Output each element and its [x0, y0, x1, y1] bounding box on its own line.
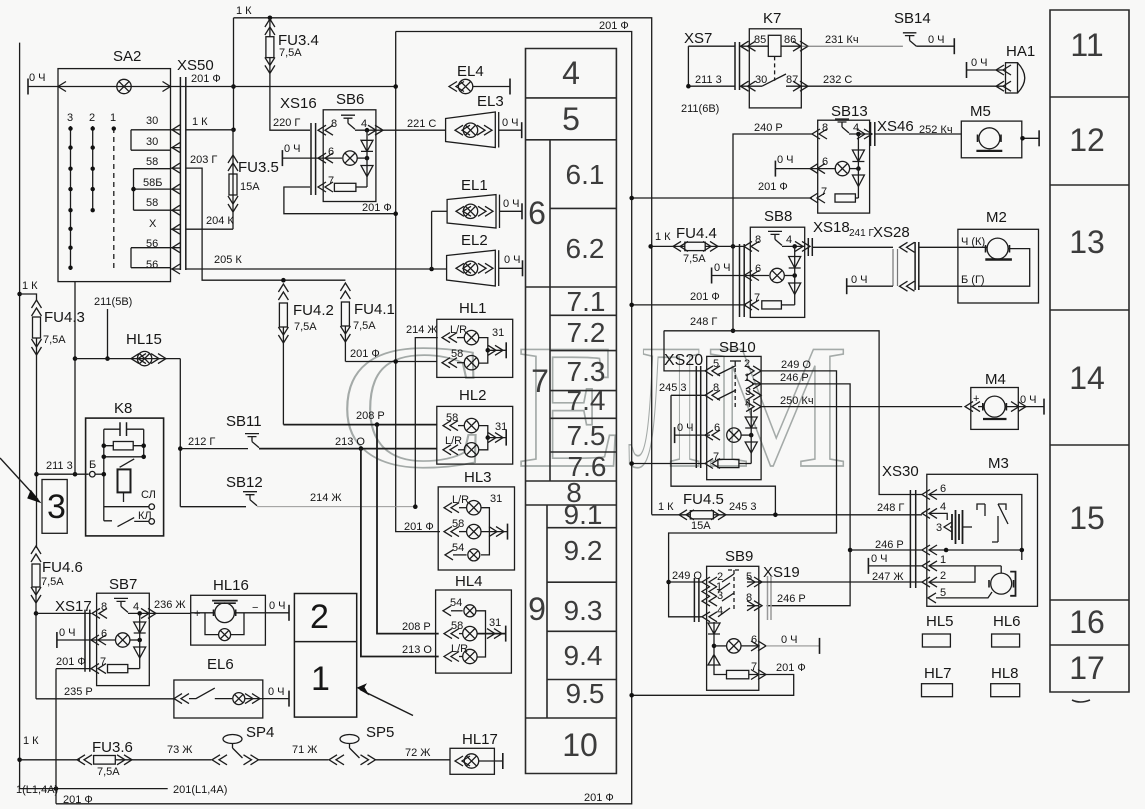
node 1К to XS50 [231, 18, 236, 132]
button SB11 [180, 413, 437, 451]
wire 208Р FU4.2 to HL2 [283, 410, 437, 427]
svg-text:240 Р: 240 Р [754, 122, 783, 134]
svg-text:6.2: 6.2 [566, 233, 605, 264]
svg-text:0 Ч: 0 Ч [851, 274, 868, 286]
svg-text:7: 7 [821, 186, 827, 198]
svg-text:211 3: 211 3 [695, 74, 722, 86]
connector XS16 [273, 95, 317, 195]
wire 250Кч SB10 to M4 [761, 395, 962, 407]
svg-text:SB11: SB11 [226, 413, 262, 430]
wire 214Ж riser [406, 324, 438, 509]
svg-text:246 Р: 246 Р [777, 593, 806, 605]
svg-text:16: 16 [1069, 604, 1105, 640]
svg-text:7: 7 [328, 175, 334, 187]
svg-text:213 О: 213 О [402, 644, 432, 656]
svg-text:245 3: 245 3 [729, 501, 757, 513]
svg-text:Ч (К): Ч (К) [961, 236, 985, 248]
svg-text:FU4.1: FU4.1 [354, 301, 395, 318]
svg-text:XS7: XS7 [684, 30, 712, 47]
svg-text:XS19: XS19 [763, 564, 800, 581]
svg-text:5: 5 [713, 358, 719, 370]
svg-text:201 Ф: 201 Ф [362, 202, 392, 214]
svg-text:248 Г: 248 Г [690, 316, 717, 328]
svg-text:248 Г: 248 Г [877, 502, 904, 514]
wire 205К from XS50 to EL2 [186, 254, 447, 271]
svg-text:7.1: 7.1 [567, 286, 606, 317]
relay K8 [86, 400, 164, 536]
switch SB9 [669, 548, 820, 690]
svg-text:1: 1 [744, 372, 750, 384]
button SB12 [180, 474, 415, 507]
lamp EL2 [447, 232, 523, 286]
svg-text:2: 2 [940, 570, 946, 582]
svg-text:X: X [149, 218, 157, 230]
svg-text:72 Ж: 72 Ж [405, 747, 430, 759]
svg-text:FU3.6: FU3.6 [92, 739, 133, 756]
svg-text:214 Ж: 214 Ж [310, 492, 342, 504]
wire 246Р SB9 label [777, 593, 806, 605]
svg-text:EL3: EL3 [477, 93, 504, 110]
svg-text:214 Ж: 214 Ж [406, 324, 438, 336]
svg-text:SB6: SB6 [336, 91, 364, 108]
svg-text:9.4: 9.4 [564, 640, 603, 671]
wire 248Г lower bus [664, 316, 922, 495]
svg-text:6: 6 [528, 195, 546, 231]
svg-text:205 К: 205 К [214, 254, 242, 266]
wire 201Ф to SB8 [629, 291, 746, 307]
svg-text:241 Г: 241 Г [849, 228, 874, 239]
svg-text:31: 31 [492, 327, 504, 339]
wire 201Ф to SB10 [629, 461, 705, 466]
svg-text:FU4.6: FU4.6 [42, 559, 83, 576]
svg-text:7: 7 [754, 292, 760, 304]
svg-text:250 Кч: 250 Кч [780, 395, 814, 407]
lamp EL4 [449, 63, 510, 95]
svg-text:0 Ч: 0 Ч [971, 57, 988, 69]
wire 213О riser to HL4 [361, 449, 439, 657]
svg-text:208 Р: 208 Р [402, 621, 431, 633]
svg-text:9.5: 9.5 [566, 678, 605, 709]
fuse FU4.1 [340, 283, 394, 362]
svg-text:L/R: L/R [451, 643, 468, 655]
svg-text:M5: M5 [970, 103, 991, 120]
svg-text:245 3: 245 3 [659, 382, 687, 394]
fuse FU3.4 [265, 15, 319, 130]
svg-text:7,5А: 7,5А [353, 320, 376, 332]
svg-text:Л: Л [628, 307, 702, 505]
svg-text:0 Ч: 0 Ч [781, 634, 798, 646]
wire 232С K7 to HA1 [801, 74, 1004, 86]
svg-text:1 К: 1 К [23, 735, 39, 747]
svg-text:7.3: 7.3 [567, 356, 606, 387]
svg-text:15: 15 [1069, 500, 1105, 536]
svg-text:HL7: HL7 [924, 665, 952, 682]
svg-text:EL2: EL2 [461, 232, 488, 249]
svg-text:HL17: HL17 [462, 731, 498, 748]
svg-text:7: 7 [531, 363, 549, 399]
svg-text:K7: K7 [763, 10, 781, 27]
svg-text:HL15: HL15 [126, 331, 162, 348]
svg-text:7.5: 7.5 [567, 420, 606, 451]
svg-text:0 Ч: 0 Ч [503, 198, 520, 210]
fuse FU4.2 [278, 278, 333, 425]
svg-text:201 Ф: 201 Ф [758, 181, 788, 193]
svg-text:0 Ч: 0 Ч [269, 600, 286, 612]
svg-text:7,5А: 7,5А [97, 766, 120, 778]
wire 1К left frame vertical [19, 43, 21, 789]
svg-text:1: 1 [110, 112, 116, 124]
connector XS30 and motor M3 [882, 455, 1038, 606]
svg-text:1 К: 1 К [192, 116, 208, 128]
svg-text:3: 3 [936, 522, 942, 534]
svg-text:58: 58 [452, 518, 464, 530]
indicator HL7 [922, 665, 953, 697]
svg-text:Б: Б [89, 459, 96, 471]
svg-text:7: 7 [100, 656, 106, 668]
svg-text:252 Кч: 252 Кч [919, 124, 953, 136]
svg-text:SB12: SB12 [226, 474, 263, 491]
wire 1(L1,4A) bottom-left stub [20, 786, 168, 791]
switch SP5 [329, 724, 450, 765]
svg-text:SB14: SB14 [894, 10, 931, 27]
wire 236Ж SB7 to HL16 [149, 599, 190, 613]
svg-text:2: 2 [89, 112, 95, 124]
svg-text:1 К: 1 К [22, 280, 38, 292]
svg-text:221 С: 221 С [407, 118, 436, 130]
svg-text:7.2: 7.2 [567, 317, 606, 348]
svg-text:201 Ф: 201 Ф [584, 792, 614, 804]
svg-text:0 Ч: 0 Ч [871, 553, 888, 565]
svg-text:6: 6 [940, 483, 946, 495]
motor M4 [965, 371, 1044, 429]
svg-text:3: 3 [47, 488, 66, 526]
svg-text:0 Ч: 0 Ч [677, 422, 694, 434]
lamp row 0Ч through SA2 [28, 72, 398, 95]
fuse FU4.4 [648, 225, 743, 265]
svg-text:HL6: HL6 [993, 613, 1021, 630]
wire 201Ф to SB9 [629, 675, 793, 698]
lamp block HL2 [437, 387, 513, 464]
svg-text:0 Ч: 0 Ч [502, 117, 519, 129]
svg-text:Б (Г): Б (Г) [961, 274, 985, 286]
svg-text:4: 4 [786, 234, 792, 246]
svg-text:247 Ж: 247 Ж [872, 571, 904, 583]
motor M5 [961, 103, 1039, 158]
wire 201Ф to SB13 [629, 181, 812, 200]
svg-text:4: 4 [940, 501, 946, 513]
wire 249О SB10 to SB9 [666, 359, 836, 617]
svg-text:+: + [973, 393, 979, 405]
svg-text:1(L1,4А): 1(L1,4А) [16, 784, 58, 796]
svg-text:HL5: HL5 [926, 613, 954, 630]
svg-text:SB8: SB8 [764, 208, 792, 225]
lamp block HL1 [437, 300, 513, 377]
lamp HL17 [450, 731, 503, 774]
node 3 callout box [0, 458, 67, 533]
svg-text:EL1: EL1 [461, 177, 488, 194]
svg-text:9: 9 [528, 591, 546, 627]
svg-text:204 К: 204 К [206, 215, 234, 227]
svg-text:0 Ч: 0 Ч [777, 154, 794, 166]
lamp EL6 [174, 656, 289, 718]
svg-text:5: 5 [562, 101, 580, 137]
svg-text:235 Р: 235 Р [64, 686, 93, 698]
svg-text:86: 86 [784, 34, 796, 46]
svg-text:L/R: L/R [452, 494, 469, 506]
right reference table 11-17 [1050, 10, 1129, 702]
svg-text:201 Ф: 201 Ф [191, 73, 221, 85]
svg-text:XS30: XS30 [882, 463, 919, 480]
svg-text:201 Ф: 201 Ф [63, 794, 93, 806]
wire 201Ф left bus vertical [396, 32, 440, 532]
connector XS17 [36, 598, 92, 672]
wire 203Г from XS50 [186, 154, 345, 280]
svg-text:58Б: 58Б [143, 177, 162, 189]
svg-text:FU4.2: FU4.2 [293, 302, 334, 319]
wire 0Ч to XS30 pin1 [868, 553, 922, 574]
svg-text:211 3: 211 3 [46, 460, 73, 472]
svg-text:XS50: XS50 [177, 57, 214, 74]
svg-text:8: 8 [822, 122, 828, 134]
wire 204К from XS50 [186, 215, 234, 229]
svg-text:SB9: SB9 [725, 548, 753, 565]
button SB14 [894, 10, 954, 54]
switch SB8 [712, 208, 810, 317]
svg-text:XS18: XS18 [813, 219, 850, 236]
relay K7 [740, 10, 809, 108]
svg-text:1: 1 [311, 660, 330, 698]
fuse FU4.5 [652, 491, 922, 532]
svg-text:201 Ф: 201 Ф [599, 20, 629, 32]
svg-text:15А: 15А [240, 181, 260, 193]
svg-text:9.2: 9.2 [564, 535, 603, 566]
wire 246Р SB10 to SB9 [761, 372, 852, 606]
connector XS46 [871, 118, 962, 146]
svg-text:246 Р: 246 Р [875, 539, 904, 551]
svg-text:10: 10 [562, 727, 598, 763]
fuse FU3.6 [17, 735, 211, 778]
svg-text:EL4: EL4 [457, 63, 484, 80]
svg-text:8: 8 [101, 601, 107, 613]
svg-text:54: 54 [450, 597, 462, 609]
svg-text:87: 87 [786, 74, 798, 86]
svg-text:201 Ф: 201 Ф [690, 291, 720, 303]
svg-text:201 Ф: 201 Ф [776, 662, 806, 674]
switch SB13 [775, 103, 872, 213]
switch SB7 [56, 576, 156, 686]
svg-text:XS17: XS17 [55, 598, 92, 615]
node 211(5В) stub [94, 296, 132, 361]
svg-text:XS28: XS28 [873, 224, 910, 241]
node 211 3 to K8 [34, 460, 88, 477]
switch SP4 [212, 724, 328, 765]
svg-text:+: + [194, 608, 200, 620]
svg-text:HL8: HL8 [991, 665, 1019, 682]
svg-text:13: 13 [1069, 224, 1105, 260]
svg-text:−: − [252, 602, 258, 614]
svg-text:7,5А: 7,5А [279, 47, 302, 59]
svg-text:СЛ: СЛ [141, 489, 156, 501]
svg-text:4: 4 [133, 601, 139, 613]
svg-text:9.3: 9.3 [564, 595, 603, 626]
connector XS50 [171, 57, 221, 274]
connector XS18 [808, 219, 893, 256]
svg-text:249 О: 249 О [781, 359, 811, 371]
svg-text:М3: М3 [988, 455, 1009, 472]
svg-text:6: 6 [755, 263, 761, 275]
svg-text:HL3: HL3 [464, 469, 492, 486]
node 2 and node 1 callout boxes [294, 594, 413, 718]
indicator HL6 [992, 613, 1021, 647]
svg-text:FU4.3: FU4.3 [44, 309, 85, 326]
wire 231Кч K7 to SB14 [801, 34, 903, 46]
svg-text:5: 5 [940, 587, 946, 599]
svg-text:НА1: НА1 [1006, 43, 1035, 60]
svg-text:FU3.5: FU3.5 [238, 159, 279, 176]
svg-text:6: 6 [714, 422, 720, 434]
connector XS7 [681, 30, 740, 115]
svg-text:FU4.5: FU4.5 [683, 491, 724, 508]
svg-text:249 О: 249 О [672, 570, 702, 582]
svg-text:SP5: SP5 [366, 724, 394, 741]
svg-text:211(5В): 211(5В) [94, 296, 132, 308]
svg-text:0 Ч: 0 Ч [714, 262, 731, 274]
svg-text:7,5А: 7,5А [43, 334, 66, 346]
svg-text:1 К: 1 К [236, 5, 252, 17]
wire 201Ф SB7 riser [55, 669, 57, 804]
svg-text:0 Ч: 0 Ч [928, 34, 945, 46]
svg-text:213 О: 213 О [335, 436, 365, 448]
svg-text:1: 1 [940, 554, 946, 566]
svg-text:7,5А: 7,5А [41, 576, 64, 588]
svg-text:HL1: HL1 [459, 300, 487, 317]
svg-text:0 Ч: 0 Ч [504, 254, 521, 266]
wire 240Р SB13 to FU4.4 [731, 122, 812, 333]
svg-text:HL4: HL4 [455, 573, 483, 590]
svg-text:30: 30 [146, 115, 158, 127]
svg-text:XS16: XS16 [280, 95, 317, 112]
svg-text:M2: M2 [986, 209, 1007, 226]
svg-text:6: 6 [101, 628, 107, 640]
svg-text:8: 8 [713, 382, 719, 394]
svg-text:K8: K8 [114, 400, 132, 417]
svg-text:9.1: 9.1 [564, 499, 603, 530]
svg-text:HL16: HL16 [213, 577, 249, 594]
svg-text:0 Ч: 0 Ч [284, 143, 301, 155]
svg-text:FU4.4: FU4.4 [676, 225, 717, 242]
svg-text:236 Ж: 236 Ж [154, 599, 186, 611]
svg-text:85: 85 [754, 34, 766, 46]
svg-text:201 Ф: 201 Ф [350, 348, 380, 360]
svg-text:5: 5 [746, 571, 752, 583]
lamp block HL4 [402, 573, 511, 673]
svg-text:M4: M4 [985, 371, 1006, 388]
svg-text:17: 17 [1069, 650, 1105, 686]
svg-text:73 Ж: 73 Ж [167, 744, 192, 756]
svg-text:211(6В): 211(6В) [681, 103, 719, 115]
svg-text:6: 6 [328, 146, 334, 158]
svg-text:7,5А: 7,5А [294, 321, 317, 333]
svg-text:54: 54 [452, 542, 464, 554]
svg-text:SB7: SB7 [109, 576, 137, 593]
svg-text:8: 8 [331, 118, 337, 130]
wire 221С SB6 to EL3 [376, 118, 446, 130]
svg-text:1 К: 1 К [655, 231, 671, 243]
fuse FU4.6 [31, 546, 83, 699]
svg-text:30: 30 [146, 136, 158, 148]
connector XS28 [847, 224, 958, 294]
svg-text:212 Г: 212 Г [188, 436, 215, 448]
svg-text:HL2: HL2 [459, 387, 487, 404]
svg-text:58: 58 [146, 197, 158, 209]
svg-text:0 Ч: 0 Ч [59, 627, 76, 639]
svg-text:31: 31 [489, 617, 501, 629]
svg-text:14: 14 [1069, 360, 1105, 396]
wire 247Ж SB9 to XS30 [759, 571, 922, 583]
svg-text:4: 4 [562, 55, 580, 91]
svg-text:71 Ж: 71 Ж [292, 744, 317, 756]
fuse FU3.5 [228, 130, 279, 229]
svg-text:1 К: 1 К [658, 501, 674, 513]
indicator HL5 [922, 613, 953, 647]
svg-text:12: 12 [1069, 122, 1105, 158]
svg-text:3: 3 [67, 112, 73, 124]
svg-text:SP4: SP4 [246, 724, 274, 741]
svg-text:31: 31 [490, 493, 502, 505]
svg-text:11: 11 [1070, 27, 1103, 63]
svg-text:232 С: 232 С [823, 74, 852, 86]
horn HA1 [967, 43, 1036, 93]
wire 201Ф top bus and right bus [56, 32, 632, 804]
lamp block HL3 [404, 469, 515, 570]
lamp EL1 [432, 177, 522, 269]
wire 1К top bus [234, 18, 652, 515]
svg-text:0 Ч: 0 Ч [268, 686, 285, 698]
switch SB10 [664, 331, 761, 480]
svg-text:246 Р: 246 Р [780, 372, 809, 384]
svg-text:7,5А: 7,5А [683, 253, 706, 265]
svg-text:2: 2 [310, 598, 329, 636]
svg-text:SB10: SB10 [719, 339, 756, 356]
svg-text:0 Ч: 0 Ч [1020, 394, 1037, 406]
switch SB6 [282, 91, 398, 216]
svg-text:201 Ф: 201 Ф [56, 656, 86, 668]
fuse FU4.3 [17, 280, 85, 548]
svg-text:6: 6 [822, 156, 828, 168]
lamp HL15 [73, 331, 183, 507]
svg-text:220 Г: 220 Г [273, 117, 300, 129]
svg-text:203 Г: 203 Г [190, 154, 217, 166]
wire 245 3 to XS20 [659, 382, 775, 515]
svg-text:7.4: 7.4 [567, 385, 606, 416]
wire 208Р riser to HL4 [377, 425, 439, 634]
motor M2 [958, 209, 1039, 303]
lamp EL3 [446, 93, 522, 148]
indicator HL16 [191, 577, 289, 645]
svg-text:L/R: L/R [445, 435, 462, 447]
central table [526, 49, 617, 774]
svg-text:6.1: 6.1 [566, 159, 605, 190]
wire 1К from XS50 [186, 116, 234, 130]
wire 246Р to XS30 [850, 539, 922, 551]
svg-text:231 Кч: 231 Кч [825, 34, 859, 46]
svg-text:15А: 15А [691, 520, 711, 532]
switch SA2 [58, 48, 171, 282]
svg-text:201(L1,4А): 201(L1,4А) [173, 784, 227, 796]
wire 201Ф FU4.1 to HL1 [345, 348, 437, 364]
wire 235Р to EL6 [36, 686, 174, 699]
svg-text:8: 8 [755, 234, 761, 246]
